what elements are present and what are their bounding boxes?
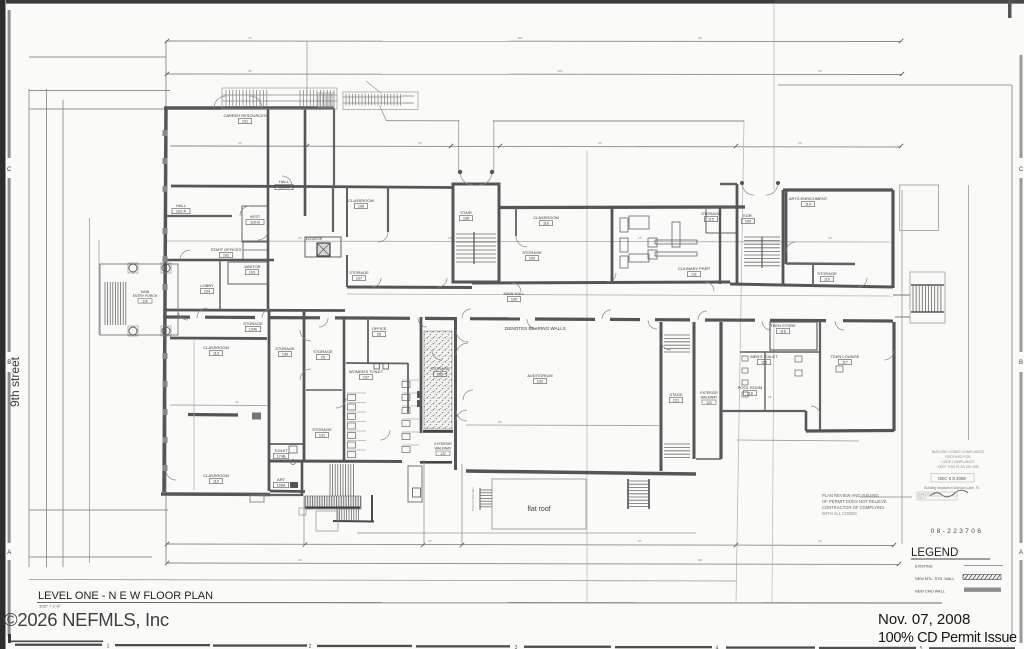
wall auditorium west	[454, 317, 457, 470]
grid line x587	[586, 150, 588, 602]
svg-text:HALL: HALL	[176, 203, 187, 208]
walkway sill 2	[420, 461, 452, 464]
svg-text:LOBBY: LOBBY	[200, 283, 214, 288]
svg-text:119: 119	[761, 361, 767, 365]
wall strip left x304	[303, 310, 306, 461]
sidewalk h3	[29, 108, 170, 110]
svg-text:174B: 174B	[277, 455, 286, 459]
svg-text:WALKWAY: WALKWAY	[435, 447, 453, 451]
svg-text:102: 102	[223, 254, 229, 258]
svg-text:87': 87'	[638, 539, 642, 543]
svg-text:101: 101	[242, 120, 248, 124]
svg-text:CULINARY PREP: CULINARY PREP	[678, 266, 710, 271]
wall kitchen east x720	[719, 207, 721, 284]
east stair connector walls	[893, 294, 910, 296]
svg-text:ENTRY PORCH: ENTRY PORCH	[133, 294, 158, 298]
ext walkway 123 label	[700, 391, 718, 405]
svg-text:A: A	[1019, 550, 1023, 556]
south exterior stair main	[299, 460, 462, 546]
room label career resources	[223, 113, 266, 124]
room vest outline	[242, 206, 268, 242]
svg-text:DENOTES BEARING WALLS: DENOTES BEARING WALLS	[505, 326, 566, 331]
top right corner tick	[1008, 0, 1012, 18]
svg-text:STAIR: STAIR	[460, 210, 472, 215]
wall x305 upper	[304, 108, 307, 216]
svg-text:B: B	[1019, 360, 1023, 366]
svg-text:112: 112	[213, 480, 219, 484]
svg-text:100: 100	[511, 298, 517, 302]
svg-text:118: 118	[780, 330, 786, 334]
sidewalk h5	[29, 556, 152, 558]
room label arts enrichment 114	[789, 196, 828, 207]
stair 108 treads	[456, 232, 496, 264]
room label stage 121	[669, 392, 683, 403]
svg-text:8'x8'x16 5/8 CMU: 8'x8'x16 5/8 CMU	[471, 488, 475, 512]
svg-text:ELEVATOR: ELEVATOR	[306, 237, 323, 241]
room label classroom 112	[203, 473, 229, 484]
wall office26 left	[367, 317, 369, 363]
sidewalk h4	[29, 509, 168, 511]
room label janitor	[243, 264, 260, 275]
wall corridor south	[166, 317, 893, 321]
svg-text:115: 115	[708, 218, 714, 222]
door arc x388	[378, 232, 388, 242]
svg-text:BUILDING CODES COMPLIANCE: BUILDING CODES COMPLIANCE	[932, 450, 985, 454]
room label stair 108	[460, 210, 473, 221]
wall strip x344	[343, 317, 346, 461]
svg-text:34': 34'	[818, 539, 822, 543]
flat roof stair west	[480, 488, 492, 510]
room label storage 107	[349, 270, 369, 281]
dim slashes	[165, 39, 904, 566]
svg-text:CLASSROOM: CLASSROOM	[203, 473, 229, 478]
svg-text:WALKWAY: WALKWAY	[701, 396, 719, 400]
teen wing fixtures	[742, 356, 843, 397]
left wall pilasters upper	[163, 130, 168, 290]
svg-text:LEVEL ONE - N E W FLOOR PLA: LEVEL ONE - N E W FLOOR PLAN	[38, 590, 213, 602]
svg-text:4: 4	[716, 646, 719, 649]
svg-text:JANITOR: JANITOR	[243, 264, 260, 269]
svg-text:C: C	[1019, 167, 1024, 173]
room label vest 110-B	[246, 214, 264, 225]
svg-text:08-223706: 08-223706	[931, 528, 984, 535]
door arc classroom116	[516, 236, 527, 247]
small north stair	[318, 93, 334, 107]
svg-text:C: C	[7, 167, 12, 173]
svg-text:WITH ALL CODES: WITH ALL CODES	[822, 511, 857, 516]
svg-text:Building Inspection Division-L: Building Inspection Division-Lake, FL	[924, 486, 980, 490]
svg-text:CLASSROOM: CLASSROOM	[348, 198, 374, 203]
dim line y74	[166, 73, 902, 76]
room label storage 130	[275, 346, 295, 357]
north stair career resources	[222, 88, 337, 109]
wall chase x421	[420, 317, 423, 433]
svg-text:ART: ART	[277, 477, 285, 482]
wall y184 vest2	[720, 183, 737, 185]
svg-text:104b: 104b	[249, 328, 257, 332]
grid line x774 lower	[772, 322, 774, 602]
wall y495 step	[258, 494, 302, 496]
shaft nested squares	[408, 466, 422, 502]
room door arcs	[166, 96, 894, 480]
wall kitchen west x612	[611, 207, 614, 282]
svg-text:102-A: 102-A	[176, 210, 187, 214]
border line x1012	[1011, 85, 1013, 640]
wall x269 lower	[268, 310, 271, 491]
wall x302 stairwell	[301, 461, 304, 496]
svg-text:25: 25	[321, 356, 325, 360]
dim line corridor y294	[347, 294, 893, 296]
svg-text:30': 30'	[298, 236, 302, 240]
wall arts top	[783, 188, 893, 191]
svg-text:PLAN REVIEW AND ISSUING: PLAN REVIEW AND ISSUING	[822, 493, 879, 498]
legend block	[911, 547, 1003, 594]
room label storage 116	[817, 271, 837, 282]
svg-text:Nov. 07, 2008: Nov. 07, 2008	[878, 611, 970, 628]
exterior walkway sw label	[434, 442, 452, 456]
elevator label	[306, 237, 323, 241]
wall classroom113 top y338	[170, 337, 267, 340]
dim vertical x307	[306, 41, 308, 95]
svg-text:44': 44'	[298, 558, 302, 562]
svg-text:STORAGE: STORAGE	[522, 250, 542, 255]
flat roof outline	[492, 479, 586, 529]
svg-text:123: 123	[706, 401, 712, 405]
kitchen equipment culinary prep	[620, 216, 697, 268]
wall teen y352	[740, 351, 820, 353]
step rect below wall	[250, 495, 264, 502]
dim vertical x89	[89, 218, 91, 563]
approval stamp block	[860, 450, 985, 500]
svg-text:116: 116	[824, 278, 830, 282]
wall corridor north right	[730, 284, 893, 287]
left edge black band	[0, 0, 6, 649]
svg-text:105: 105	[745, 220, 751, 224]
room label main hall 100	[503, 291, 525, 302]
svg-text:RECEIVED FOR: RECEIVED FOR	[945, 455, 971, 459]
vestibule dim v1	[458, 120, 460, 172]
svg-text:AUDITORIUM: AUDITORIUM	[527, 373, 552, 378]
svg-text:NEW MTL. STD. WALL: NEW MTL. STD. WALL	[915, 577, 955, 581]
stair 113 treads	[744, 237, 780, 268]
toilet stalls column	[347, 393, 366, 458]
stair113 shaft left	[736, 184, 739, 284]
wall teen toilet x765	[764, 352, 766, 411]
canopy diagonal	[380, 106, 387, 121]
wall strip bottom y491	[270, 490, 305, 493]
wall NW bottom y494	[161, 492, 270, 496]
svg-text:NEW CMU WALL: NEW CMU WALL	[915, 590, 945, 594]
bottom scale bars	[15, 644, 1015, 649]
speckled storage area	[424, 331, 452, 429]
thin line y85 right	[778, 84, 1012, 86]
svg-text:CLASSROOM: CLASSROOM	[533, 215, 559, 220]
room label storage 115	[701, 211, 721, 222]
room label storage 131	[312, 427, 332, 438]
svg-text:DEC 0 8 2008: DEC 0 8 2008	[938, 476, 966, 481]
dim line y146	[170, 146, 901, 147]
north vestibule doors	[458, 170, 494, 185]
sidewalk h2	[29, 90, 170, 92]
wall auditorium south	[466, 471, 696, 474]
svg-text:LEGEND: LEGEND	[911, 547, 958, 559]
stage bottom stair	[664, 444, 690, 458]
svg-text:126: 126	[142, 299, 148, 303]
svg-text:CAREER RESOURCES: CAREER RESOURCES	[223, 113, 266, 118]
svg-text:POOL ROOM: POOL ROOM	[738, 385, 763, 390]
grid line x774 upper	[773, 3, 775, 190]
wall hall102A bottom	[166, 215, 232, 217]
left wall pilasters	[163, 353, 168, 471]
dim vertical x902	[901, 190, 903, 544]
svg-text:with to: with to	[918, 496, 926, 500]
svg-text:121-A: 121-A	[279, 186, 290, 190]
svg-text:126A: 126A	[277, 484, 286, 488]
svg-text:114: 114	[805, 203, 811, 207]
wall corridor north left	[347, 286, 472, 290]
wall arts left	[785, 190, 788, 264]
wall classroom106 right x388	[387, 186, 389, 232]
wall career-resources bottom	[171, 185, 305, 188]
svg-text:TEEN STORE: TEEN STORE	[770, 323, 796, 328]
svg-text:MEN'S TOILET: MEN'S TOILET	[750, 354, 778, 359]
svg-text:CODE COMPLIANCE: CODE COMPLIANCE	[941, 460, 975, 464]
wall teen left x721	[719, 322, 722, 459]
interior dim x194	[193, 340, 195, 490]
room label mens toilet 119	[750, 354, 778, 365]
street line v2	[46, 89, 48, 567]
wall stage right x694	[693, 322, 696, 459]
wall teen right x895	[892, 322, 895, 431]
room janitor outline	[228, 262, 268, 284]
svg-text:116: 116	[747, 392, 753, 396]
room label classroom 116	[533, 215, 559, 226]
svg-text:3/32" = 1'-0": 3/32" = 1'-0"	[39, 604, 61, 609]
elevator shaft	[317, 243, 330, 256]
svg-text:STAGE: STAGE	[669, 392, 683, 397]
svg-text:44': 44'	[238, 141, 242, 145]
flat roof south line	[398, 532, 696, 534]
wall teen bottom	[806, 429, 894, 433]
wall spine x268	[267, 108, 270, 310]
svg-text:122: 122	[440, 452, 446, 456]
svg-text:STORAGE: STORAGE	[349, 270, 369, 275]
svg-text:OF PERMIT DOES NOT RELIEVE: OF PERMIT DOES NOT RELIEVE	[822, 499, 887, 504]
corridor door arcs	[197, 273, 867, 330]
svg-text:1: 1	[107, 643, 110, 649]
svg-text:STORAGE: STORAGE	[312, 427, 332, 432]
auditorium mid line	[466, 424, 659, 427]
wall NW left exterior	[164, 107, 166, 492]
flat roof stair east	[628, 479, 649, 509]
svg-text:©2026 NEFMLS, Inc: ©2026 NEFMLS, Inc	[4, 609, 169, 630]
title underline	[37, 602, 942, 605]
svg-text:56': 56'	[768, 395, 772, 399]
svg-text:131: 131	[319, 434, 325, 438]
dim vertical left x166	[165, 41, 167, 563]
street line v3	[62, 100, 64, 567]
stair113 doors	[740, 181, 780, 195]
site line y580	[29, 580, 737, 582]
wall classroom116 top	[499, 205, 745, 209]
room label culinary prep 111	[678, 266, 710, 277]
svg-text:MAIN HALL: MAIN HALL	[503, 291, 525, 296]
wall office26 bottom y363	[346, 362, 408, 365]
street line top h1	[29, 56, 166, 58]
svg-text:46': 46'	[248, 69, 252, 73]
wall storage116 top	[786, 262, 855, 265]
svg-text:TOILET: TOILET	[274, 448, 288, 453]
dim line y241	[166, 241, 893, 242]
canopy line y120 b	[493, 120, 744, 122]
svg-text:135: 135	[437, 373, 443, 377]
wall classrooms partial divider	[188, 413, 238, 417]
room label storage 104b upper	[243, 321, 263, 332]
wall chase dark patches	[417, 391, 422, 398]
wall x220 lobby	[219, 260, 221, 310]
svg-text:84': 84'	[498, 420, 502, 424]
wall toilet right x408	[407, 363, 409, 413]
north fire-escape stair	[343, 92, 418, 110]
svg-text:STAFF OFFICES: STAFF OFFICES	[211, 247, 242, 252]
room label womens toilet	[349, 369, 384, 380]
street line v1	[28, 89, 30, 567]
room label classroom 106	[348, 198, 374, 209]
dim line bottom y563	[167, 563, 899, 565]
room label classroom 113	[203, 345, 229, 356]
svg-text:TEEN LOUNGE: TEEN LOUNGE	[831, 354, 860, 359]
svg-text:26: 26	[377, 333, 381, 337]
auditorium west door arcs	[456, 330, 468, 342]
room label office 26	[372, 326, 387, 337]
svg-text:100% CD Permit Issue: 100% CD Permit Issue	[878, 630, 1017, 646]
dim vertical x99	[98, 240, 100, 335]
room label teen store 118	[770, 323, 796, 334]
grid line x744	[736, 120, 744, 602]
svg-text:3: 3	[515, 645, 518, 649]
wall staff-offices bottom y260	[166, 259, 274, 262]
thin line x968	[968, 185, 970, 440]
wall divider piece	[252, 413, 261, 420]
teen walkway line	[737, 440, 859, 441]
room label storage 25	[313, 349, 333, 360]
svg-text:EXTERIOR: EXTERIOR	[700, 391, 718, 395]
svg-text:108: 108	[463, 217, 469, 221]
room label stair 113	[742, 213, 755, 224]
staff toilet boxes	[243, 241, 268, 260]
left margin strip	[8, 10, 11, 636]
svg-text:flat roof: flat roof	[527, 506, 550, 513]
room label auditorium	[527, 373, 552, 384]
room teen store	[770, 322, 817, 350]
main entry porch	[100, 263, 178, 336]
wall lobby south y310	[166, 309, 345, 312]
svg-text:121: 121	[673, 399, 679, 403]
svg-text:STORAGE: STORAGE	[817, 271, 837, 276]
svg-text:113: 113	[213, 352, 219, 356]
walkway dark sill	[423, 430, 453, 433]
svg-text:117: 117	[842, 361, 848, 365]
walkway south line	[696, 458, 721, 460]
svg-text:40': 40'	[418, 141, 422, 145]
bottom grid numbers	[107, 643, 923, 649]
dim line classrooms y405	[170, 404, 267, 407]
room label staff offices	[211, 247, 242, 258]
plan review note	[822, 493, 887, 516]
svg-text:9th street: 9th street	[8, 356, 22, 407]
svg-text:106: 106	[358, 205, 364, 209]
dim line bottom y544	[167, 544, 894, 546]
elevator room	[305, 237, 341, 257]
room label hall 102-A	[172, 203, 190, 214]
toilet 174b fixture	[289, 446, 297, 453]
svg-text:2: 2	[309, 644, 312, 649]
svg-text:103: 103	[249, 271, 255, 275]
svg-text:CONTRACTOR OF COMPLYING: CONTRACTOR OF COMPLYING	[822, 505, 884, 510]
svg-text:KEEP THIS PLAN ON JOB: KEEP THIS PLAN ON JOB	[938, 465, 980, 469]
svg-text:EGR.: EGR.	[743, 213, 753, 218]
svg-text:WOMEN'S TOILET: WOMEN'S TOILET	[349, 369, 384, 374]
vestibule dim v2	[493, 120, 495, 172]
wall x334 upper	[333, 108, 335, 186]
svg-text:28': 28'	[448, 236, 452, 240]
canopy line y120 a	[386, 120, 460, 122]
svg-text:97': 97'	[428, 539, 432, 543]
wall classroom116 left	[515, 208, 517, 236]
arts porch box	[900, 185, 939, 230]
svg-text:62': 62'	[818, 69, 822, 73]
dim line top y41	[166, 40, 901, 43]
wall classroom106 top y187	[305, 187, 453, 188]
svg-text:44': 44'	[235, 400, 239, 404]
svg-text:79': 79'	[248, 36, 252, 40]
east exterior stair	[910, 272, 945, 323]
wall x333 mid	[332, 187, 334, 232]
wall x347 upper	[346, 187, 348, 237]
svg-text:STORAGE: STORAGE	[313, 349, 333, 354]
svg-text:STORAGE: STORAGE	[275, 346, 295, 351]
svg-text:HALL: HALL	[279, 179, 290, 184]
wall storage strip y390	[306, 389, 342, 391]
wall stage left x661	[660, 322, 663, 471]
tiny dimension texts	[235, 36, 832, 562]
wall south block y461	[269, 460, 402, 464]
svg-text:116: 116	[543, 222, 549, 226]
toilet sinks	[374, 364, 380, 370]
svg-text:164': 164'	[517, 36, 523, 40]
right margin strip	[1020, 55, 1023, 643]
svg-text:OFFICE: OFFICE	[372, 326, 387, 331]
stair113 shaft right	[782, 190, 785, 284]
wall arts right	[891, 190, 894, 288]
svg-text:A: A	[7, 550, 11, 556]
room label toilet 174b	[273, 448, 288, 459]
room label storage 109	[522, 250, 542, 261]
room label hall 121-A	[275, 179, 293, 190]
svg-text:STORAGE: STORAGE	[701, 211, 721, 216]
room label lobby	[200, 283, 214, 294]
svg-text:109: 109	[529, 257, 535, 261]
svg-text:88': 88'	[698, 36, 702, 40]
svg-text:124': 124'	[557, 69, 563, 73]
svg-text:111: 111	[691, 273, 697, 277]
room label art 126a	[273, 477, 288, 488]
wall storage116 left	[812, 264, 814, 287]
svg-text:130: 130	[282, 353, 288, 357]
svg-text:40': 40'	[828, 236, 832, 240]
svg-text:STORAGE: STORAGE	[243, 321, 263, 326]
room stair108 outline	[453, 184, 499, 282]
